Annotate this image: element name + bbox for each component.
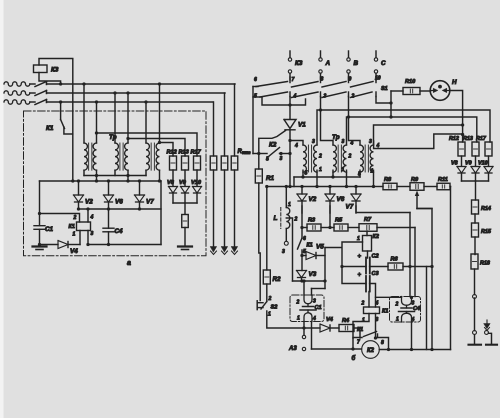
wire R8-R9 <box>397 186 410 188</box>
wire below <box>461 173 463 181</box>
node <box>372 185 375 188</box>
label 3 <box>324 94 327 100</box>
wire V1 down <box>289 130 291 187</box>
wire primary2 top to phase B <box>114 93 116 143</box>
wire K1 pin1 down <box>79 231 81 245</box>
label C1 <box>45 226 54 233</box>
svg-text:R15: R15 <box>481 229 492 235</box>
diode V9 left <box>181 187 190 194</box>
wire V4 to K1 <box>69 244 80 246</box>
wire rail 212.5 <box>356 206 410 213</box>
contact K2 <box>253 148 290 157</box>
inductor core <box>280 208 282 229</box>
node phase A / K3 <box>59 82 62 85</box>
node <box>288 139 291 142</box>
wire R2 top <box>266 187 268 271</box>
label V5 <box>316 244 324 251</box>
pin 2 <box>73 215 77 221</box>
node <box>126 137 129 140</box>
svg-text:А: А <box>325 60 331 67</box>
label plus <box>358 254 362 260</box>
svg-text:4: 4 <box>294 143 298 149</box>
wire C1 pins top <box>304 281 325 295</box>
label 7 <box>292 77 295 83</box>
diode V4 left schematic <box>58 241 68 249</box>
label V6 <box>115 199 123 206</box>
svg-text:S1: S1 <box>381 86 388 92</box>
pin 1 <box>73 232 76 238</box>
svg-text:С4: С4 <box>413 306 421 312</box>
wire V7 down <box>355 201 357 213</box>
label Tp left <box>109 134 117 141</box>
diode V6 left schematic <box>104 195 114 202</box>
wire phase B <box>47 92 226 94</box>
resistor R13 right <box>472 142 479 156</box>
node <box>138 179 141 182</box>
label V3 <box>309 271 317 278</box>
svg-text:1: 1 <box>288 202 291 208</box>
wire rail 187 left <box>267 186 374 188</box>
wire R10 to H <box>420 90 431 92</box>
node <box>77 179 80 182</box>
svg-text:R9: R9 <box>411 177 419 183</box>
svg-text:R6: R6 <box>391 257 399 263</box>
wire sec bottoms 2 <box>331 170 346 186</box>
wire rail under diodes <box>79 208 162 210</box>
node <box>300 226 303 229</box>
svg-text:V8: V8 <box>167 180 175 186</box>
label plus <box>358 273 362 279</box>
transformer Tp2 right winding 1 <box>314 145 317 172</box>
dash-dot enclosure a <box>24 111 207 256</box>
node <box>86 243 89 246</box>
label 1 <box>357 236 360 242</box>
svg-text:V7: V7 <box>146 199 154 206</box>
label R13 <box>463 136 473 142</box>
svg-text:3: 3 <box>282 249 285 255</box>
node <box>38 243 41 246</box>
svg-text:R8: R8 <box>384 177 392 183</box>
node <box>389 101 392 104</box>
svg-text:R12: R12 <box>449 136 459 142</box>
ground <box>178 247 192 250</box>
label 2 <box>351 94 355 100</box>
transformer Tp core 1 <box>89 143 92 170</box>
wire diode join right <box>462 180 489 182</box>
label R17 <box>476 136 487 142</box>
svg-text:R5: R5 <box>335 218 343 224</box>
wire H right <box>450 91 463 143</box>
wire C1 top rail <box>40 214 80 223</box>
node <box>319 108 322 111</box>
wire rail 208.5 column <box>417 208 432 210</box>
node <box>38 212 41 215</box>
wire secondary3 bottom <box>159 170 161 181</box>
wire V5 right <box>317 255 325 257</box>
svg-text:1: 1 <box>319 167 322 173</box>
svg-text:8: 8 <box>321 77 324 83</box>
wire secondary2 tap to R13 column <box>128 139 185 157</box>
wire phase B drop <box>224 93 226 156</box>
svg-text:3: 3 <box>313 299 316 305</box>
svg-text:V2: V2 <box>309 196 317 203</box>
diode V5 <box>306 252 316 260</box>
svg-text:С: С <box>381 60 386 67</box>
transformer Tp2 left winding 2 <box>333 145 336 172</box>
node <box>288 152 291 155</box>
wire H node to winding3 <box>374 134 463 149</box>
wire secondary2 bottom <box>127 170 129 181</box>
svg-text:4: 4 <box>312 316 316 322</box>
svg-text:7: 7 <box>357 340 360 346</box>
label R7 <box>364 217 372 223</box>
node <box>257 152 260 155</box>
transformer Tp2 left winding 1 <box>303 145 306 172</box>
svg-text:V7: V7 <box>346 204 354 211</box>
node <box>126 91 129 94</box>
resistor R5 <box>334 224 348 231</box>
node phase C / K1 <box>59 100 62 103</box>
terminal К3 <box>288 51 291 80</box>
three-phase source windings <box>4 82 35 104</box>
svg-text:V2: V2 <box>85 199 93 206</box>
svg-text:2: 2 <box>351 94 355 100</box>
svg-text:R13: R13 <box>463 136 473 142</box>
transformer Tp core 3 <box>151 143 154 170</box>
label H <box>452 79 457 86</box>
pin 3 <box>313 299 316 305</box>
wire R18 down <box>474 269 476 295</box>
resistor R2 <box>263 270 270 284</box>
svg-text:6: 6 <box>254 77 257 83</box>
label R2 <box>273 276 282 283</box>
node <box>328 185 331 188</box>
wire C3 right rail <box>370 284 376 298</box>
wire K2 coil top <box>366 231 368 236</box>
svg-text:5: 5 <box>266 157 269 163</box>
shield box C4 <box>390 297 421 323</box>
svg-text:R3: R3 <box>308 218 316 224</box>
svg-text:R18: R18 <box>480 261 490 267</box>
resistor R7 <box>359 224 377 232</box>
label R15 <box>481 229 492 235</box>
wire K3 bottom to phase A <box>39 73 61 85</box>
wire secondary3 to phase A <box>159 84 161 143</box>
terminal circle <box>473 331 477 335</box>
relay K1 block right <box>364 307 380 314</box>
svg-text:V5: V5 <box>316 244 324 251</box>
svg-text:К1: К1 <box>46 125 54 132</box>
svg-text:V6: V6 <box>337 196 345 203</box>
wire to ground <box>184 228 186 247</box>
svg-text:К3: К3 <box>295 60 303 67</box>
wire V2 col down <box>301 228 303 239</box>
label V9 <box>465 161 472 167</box>
svg-text:V6: V6 <box>115 199 123 206</box>
label K2 coil <box>373 234 379 240</box>
svg-text:V4: V4 <box>70 248 78 255</box>
resistor R shunt <box>210 156 217 170</box>
node <box>158 82 161 85</box>
wire secondary3 rail <box>374 125 463 145</box>
pin 3 <box>342 139 345 145</box>
potentiometer R9 wiper <box>415 191 419 209</box>
label K1 <box>46 125 54 132</box>
svg-text:2: 2 <box>73 215 77 221</box>
pin 2 <box>294 217 298 223</box>
label L <box>274 215 278 222</box>
diode V2 left schematic <box>74 195 84 202</box>
node <box>340 265 343 268</box>
resistor R15 <box>472 223 479 237</box>
svg-text:9: 9 <box>349 77 352 83</box>
wire to switch <box>474 298 476 331</box>
pin 2 <box>318 154 322 160</box>
wire K1 pin4 top <box>376 297 402 307</box>
shield box C1 <box>290 295 324 322</box>
resistor R8 <box>383 183 397 190</box>
svg-text:1: 1 <box>268 312 271 318</box>
wire to R14 <box>475 181 477 200</box>
wire pole4 to winding1 <box>290 141 303 146</box>
node <box>126 179 129 182</box>
pin 1 <box>396 317 399 323</box>
wire secondary3 tap to R12 column <box>160 143 174 157</box>
wire C4 pin4 down <box>411 322 413 350</box>
label 1 <box>268 312 271 318</box>
svg-text:2: 2 <box>268 296 272 302</box>
svg-text:С4: С4 <box>115 228 124 235</box>
node <box>107 179 110 182</box>
svg-text:3: 3 <box>324 94 327 100</box>
svg-text:1: 1 <box>73 232 76 238</box>
pin 3 <box>282 249 285 255</box>
wire R6 rail corner drop <box>426 267 428 350</box>
svg-text:2: 2 <box>361 301 365 307</box>
label V1 <box>298 122 306 129</box>
capacitor C4 <box>103 228 114 232</box>
resistor R18 <box>471 254 478 269</box>
resistor below V9 <box>182 215 189 228</box>
wire pole10 step <box>376 97 391 118</box>
node <box>144 100 147 103</box>
svg-text:S2: S2 <box>271 305 279 311</box>
svg-text:2: 2 <box>294 217 298 223</box>
transformer Tp2 core 1 <box>308 145 311 172</box>
wire diode join <box>173 202 197 204</box>
wire R9-R11 <box>424 186 437 188</box>
wire rail 281 <box>293 280 326 282</box>
wire R7 right <box>377 227 415 229</box>
label R10 <box>405 79 416 85</box>
wire K1 branch from phase C <box>60 102 62 120</box>
node <box>302 326 305 329</box>
machine K2 <box>362 341 380 359</box>
wire V2 column <box>301 206 303 228</box>
wire V2 down <box>301 201 303 213</box>
svg-text:4: 4 <box>350 141 354 147</box>
wire V6 column <box>329 206 331 228</box>
diode V7 right schematic <box>351 194 361 201</box>
node <box>126 174 129 177</box>
wire R2 down <box>266 284 268 302</box>
svg-text:3: 3 <box>91 231 94 237</box>
svg-text:а: а <box>127 260 131 267</box>
wire phase C drop <box>213 102 215 156</box>
wire K1 pin3 down <box>375 314 377 339</box>
svg-text:R17: R17 <box>191 150 202 156</box>
diode V8 left <box>169 187 178 194</box>
wire secondary2 to phase B <box>127 93 129 143</box>
terminal В <box>347 51 350 80</box>
wire pole2 to winding3 <box>349 97 361 146</box>
svg-text:2: 2 <box>318 154 322 160</box>
svg-text:2: 2 <box>348 154 352 160</box>
node <box>285 185 288 188</box>
ground arrow <box>210 247 216 255</box>
label K2 <box>269 142 277 149</box>
node <box>113 91 116 94</box>
svg-text:С3: С3 <box>372 271 380 277</box>
knife switch <box>469 331 498 345</box>
transformer Tp left winding 2 <box>115 143 118 170</box>
wire rail 328 right <box>304 327 320 329</box>
pin 3 <box>369 139 372 145</box>
lamp H <box>430 81 450 101</box>
wire C1 pin4 down <box>311 322 313 350</box>
wire sec bottoms 3 <box>360 170 374 186</box>
wire R12 to V8 <box>172 170 174 186</box>
label С <box>381 60 386 67</box>
svg-text:3: 3 <box>412 301 415 307</box>
svg-text:С1: С1 <box>315 305 322 311</box>
wire V10 down <box>196 193 198 203</box>
terminal A3 <box>288 328 306 352</box>
diode V10 left <box>193 187 202 194</box>
svg-text:С2: С2 <box>372 254 380 260</box>
wire C4 pin3 columns <box>410 213 415 300</box>
wire K1 pin4 <box>87 209 89 222</box>
svg-text:7: 7 <box>292 77 295 83</box>
pin 4 <box>90 215 94 221</box>
svg-text:3: 3 <box>369 139 372 145</box>
labels V2 V6 V7 <box>309 196 354 211</box>
svg-text:1: 1 <box>396 317 399 323</box>
node <box>288 103 291 106</box>
svg-text:Н: Н <box>452 79 457 86</box>
wire V9 down <box>184 193 186 203</box>
svg-text:4: 4 <box>293 94 297 100</box>
svg-text:V1: V1 <box>298 122 306 129</box>
wire secondary1 tap to R17 column <box>97 133 198 156</box>
pin 2 <box>296 300 300 306</box>
label 8 <box>381 340 384 346</box>
label b <box>352 355 356 362</box>
wire C1 to ground <box>39 229 41 246</box>
diode V3 <box>297 271 307 278</box>
wire phase A <box>47 83 236 85</box>
wire right box side <box>160 181 162 245</box>
svg-text:R14: R14 <box>481 206 491 212</box>
terminal circle L <box>284 241 288 245</box>
pin 2 <box>348 154 352 160</box>
wire to diode <box>475 156 477 166</box>
wire K2 coil loop <box>342 242 366 284</box>
wire secondary1 to phase C <box>96 102 98 143</box>
label C3 <box>372 271 380 277</box>
svg-text:V10: V10 <box>478 161 488 167</box>
wire main line right <box>379 349 450 351</box>
pin 5 <box>358 172 361 178</box>
pin 1 <box>297 316 300 322</box>
resistor R12 left <box>170 156 177 170</box>
label R12 <box>449 136 459 142</box>
transformer Tp left winding 1 <box>84 143 87 170</box>
label K3 <box>51 67 59 74</box>
transformer Tp2 right winding 2 <box>343 145 346 172</box>
wire K2-C2 <box>367 251 369 258</box>
wire V2 bottom <box>78 202 80 209</box>
wire V7 bottom <box>139 202 141 209</box>
inductor L <box>286 208 290 241</box>
node <box>430 265 433 268</box>
capacitor C3 <box>366 276 370 292</box>
label C1 <box>315 305 322 311</box>
label R13 <box>179 150 190 156</box>
wire C1 pin1 down <box>303 322 305 329</box>
diode V6 right schematic <box>325 194 335 201</box>
pin 4 <box>376 143 380 149</box>
svg-text:1: 1 <box>362 318 365 324</box>
node <box>461 123 464 126</box>
label R6 <box>391 257 399 263</box>
wire to ground <box>224 170 226 247</box>
node <box>302 279 305 282</box>
wire C1 column <box>39 181 41 226</box>
diode V9 right <box>471 167 480 174</box>
label 8 <box>321 77 324 83</box>
wire to R8 <box>374 186 384 188</box>
label 3 <box>280 156 283 162</box>
svg-text:R10: R10 <box>405 79 416 85</box>
label R9 <box>411 177 419 183</box>
wire R1 top <box>258 154 260 170</box>
wire V1 column top <box>289 97 291 119</box>
wire to ground <box>234 170 236 247</box>
diode V10 right <box>484 167 493 174</box>
capacitor C1 right <box>300 295 316 322</box>
svg-text:К1: К1 <box>357 327 363 333</box>
wire bottom box rail <box>88 244 161 246</box>
svg-text:б: б <box>352 355 356 362</box>
pin 3 <box>91 231 94 237</box>
wire winding bottoms rail <box>84 170 146 175</box>
switch S1 row2 <box>253 92 376 98</box>
svg-text:R12: R12 <box>167 150 178 156</box>
wire winding bottom rail 177 <box>294 177 360 187</box>
transformer Tp right winding 3 <box>156 143 159 170</box>
diode V4 right schematic <box>320 324 330 332</box>
node <box>323 279 326 282</box>
svg-text:R17: R17 <box>476 136 487 142</box>
label R8 <box>384 177 392 183</box>
transformer Tp left winding 3 <box>146 143 149 170</box>
svg-text:К2: К2 <box>373 234 379 240</box>
label 5 <box>303 249 306 255</box>
wire C3 to K1 pin2 <box>368 292 370 308</box>
label C4 <box>115 228 124 235</box>
node <box>328 226 331 229</box>
